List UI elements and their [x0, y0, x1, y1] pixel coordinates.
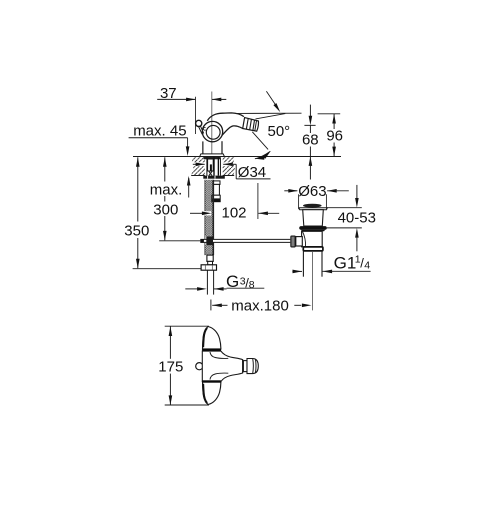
- svg-text:max.: max.: [150, 181, 183, 198]
- braided flexible hose: [205, 180, 214, 255]
- 102 left arrowhead at hose: [202, 211, 212, 215]
- pop-up rod: [200, 239, 290, 243]
- rod clamp at hose: [206, 236, 213, 245]
- dimension 37 top: [157, 85, 226, 134]
- svg-text:Ø34: Ø34: [238, 164, 266, 181]
- deck hatched cross-section right: [223, 157, 235, 175]
- faucet centerline: [211, 92, 213, 154]
- dimension max. 300 rod length: [149, 157, 201, 241]
- locknut below deck: [203, 176, 225, 179]
- drain centerline: [311, 252, 313, 310]
- svg-text:max. 45: max. 45: [133, 122, 186, 139]
- dimension 175 top view: [158, 326, 209, 405]
- svg-text:max.180: max.180: [231, 297, 289, 314]
- dimension 96 total height: [318, 114, 344, 156]
- dimension 102: [190, 183, 279, 221]
- G3/8 connection nut: [201, 265, 216, 270]
- faucet body side view: [196, 113, 259, 157]
- G3/8 pipe tails: [207, 270, 213, 294]
- 50 degree outlet angle annotation: [237, 91, 302, 160]
- dimension diameter 34 shank hole: [193, 163, 271, 182]
- svg-text:Ø63: Ø63: [298, 183, 326, 200]
- hose end fitting: [207, 255, 213, 265]
- dimension 40-53 clamping range: [327, 185, 376, 251]
- svg-text:4: 4: [364, 259, 370, 271]
- deck hatched cross-section left: [190, 157, 206, 175]
- svg-text:300: 300: [153, 202, 178, 219]
- drain pop-up waste assembly: [290, 204, 327, 277]
- svg-text:68: 68: [302, 131, 319, 148]
- svg-text:175: 175: [158, 359, 183, 376]
- svg-text:G: G: [226, 272, 239, 291]
- dimension diameter 63 flange: [284, 183, 349, 209]
- svg-text:50°: 50°: [268, 123, 291, 140]
- dimension max. 180: [211, 297, 312, 314]
- svg-text:350: 350: [124, 223, 149, 240]
- svg-text:102: 102: [221, 204, 246, 221]
- dimension 350 hose length: [124, 157, 201, 269]
- svg-text:G1: G1: [334, 253, 357, 272]
- svg-text:96: 96: [326, 128, 343, 145]
- svg-text:40-53: 40-53: [338, 209, 376, 226]
- svg-text:8: 8: [249, 279, 255, 291]
- threaded shank in deck hole: [204, 157, 223, 176]
- dimension 68 outlet height: [302, 105, 320, 180]
- deck surface line: [133, 155, 341, 157]
- dimension max. 45 deck thickness: [129, 122, 191, 197]
- label G1 1/4: [292, 253, 370, 273]
- faucet top view: [196, 327, 259, 405]
- label G 3/8: [185, 272, 264, 291]
- mounting stud and nut: [212, 181, 221, 202]
